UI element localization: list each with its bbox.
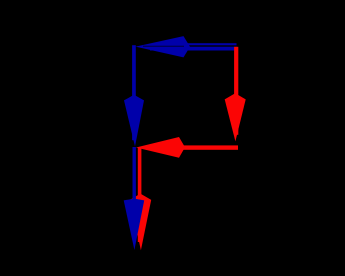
red arrow R1 (points down, right side): [225, 47, 246, 142]
blue arrow B1 (points left, top): [136, 36, 238, 57]
blue arrow B3 (points down, lower): [124, 147, 145, 250]
blue thin line (upper parallel segment, top): [182, 43, 237, 45]
blue arrow B2 (points down, upper left): [124, 45, 144, 146]
red arrow R2 (points left, middle): [136, 137, 238, 158]
red arrow R3 (points down, lower): [130, 148, 151, 250]
